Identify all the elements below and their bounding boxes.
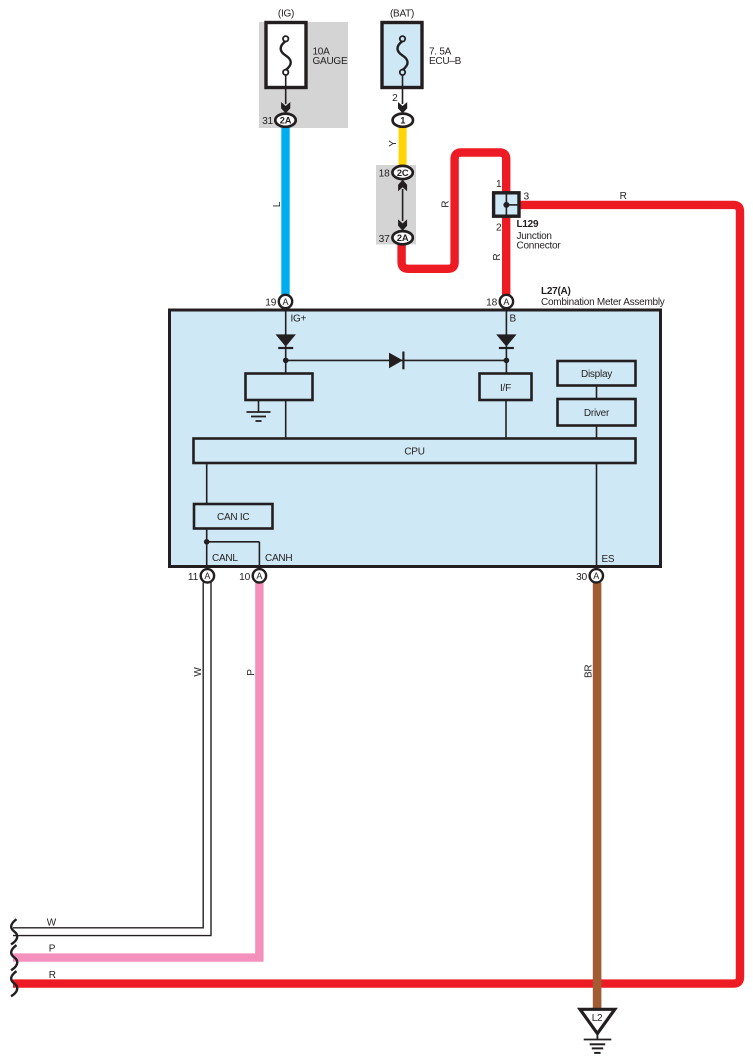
svg-text:Y: Y <box>388 140 399 147</box>
svg-text:R: R <box>440 201 451 208</box>
svg-text:L: L <box>272 201 283 207</box>
svg-text:CANL: CANL <box>212 553 238 564</box>
svg-text:R: R <box>492 254 503 261</box>
svg-text:ECU–B: ECU–B <box>429 56 462 67</box>
svg-text:CANH: CANH <box>265 553 292 564</box>
svg-text:IG+: IG+ <box>291 314 307 325</box>
svg-text:L2: L2 <box>592 1013 603 1024</box>
svg-text:Connector: Connector <box>517 241 562 252</box>
svg-text:37: 37 <box>379 234 390 245</box>
svg-text:W: W <box>193 667 204 677</box>
svg-text:(BAT): (BAT) <box>390 9 414 20</box>
svg-text:BR: BR <box>584 665 595 678</box>
svg-text:11: 11 <box>188 572 199 583</box>
svg-text:Combination Meter Assembly: Combination Meter Assembly <box>541 297 665 308</box>
svg-text:19: 19 <box>265 298 276 309</box>
svg-text:A: A <box>282 297 288 307</box>
svg-text:2: 2 <box>496 222 502 233</box>
svg-text:A: A <box>503 297 509 307</box>
svg-text:CPU: CPU <box>404 447 424 458</box>
svg-text:3: 3 <box>524 192 530 203</box>
svg-text:Driver: Driver <box>584 408 610 419</box>
svg-text:2A: 2A <box>280 116 292 126</box>
svg-text:(IG): (IG) <box>278 9 294 20</box>
svg-text:Display: Display <box>581 369 612 380</box>
svg-text:L27(A): L27(A) <box>541 286 571 297</box>
svg-text:L129: L129 <box>517 219 539 230</box>
svg-text:GAUGE: GAUGE <box>313 56 348 67</box>
svg-text:2: 2 <box>392 93 398 104</box>
svg-text:I/F: I/F <box>500 383 511 394</box>
svg-text:31: 31 <box>262 116 273 127</box>
svg-text:W: W <box>47 918 57 929</box>
svg-text:R: R <box>620 191 627 202</box>
svg-text:2A: 2A <box>397 233 409 243</box>
svg-text:10: 10 <box>239 572 250 583</box>
svg-text:B: B <box>510 314 517 325</box>
svg-text:A: A <box>256 571 262 581</box>
svg-text:30: 30 <box>576 572 587 583</box>
svg-text:ES: ES <box>602 554 615 565</box>
svg-text:A: A <box>593 571 599 581</box>
svg-text:2C: 2C <box>397 168 409 178</box>
svg-text:1: 1 <box>496 179 502 190</box>
svg-text:1: 1 <box>400 116 405 126</box>
svg-text:A: A <box>204 571 210 581</box>
svg-text:P: P <box>246 669 257 676</box>
svg-text:P: P <box>49 944 56 955</box>
svg-text:18: 18 <box>486 298 497 309</box>
svg-text:R: R <box>49 970 56 981</box>
svg-text:18: 18 <box>379 169 390 180</box>
svg-text:CAN IC: CAN IC <box>217 512 249 523</box>
